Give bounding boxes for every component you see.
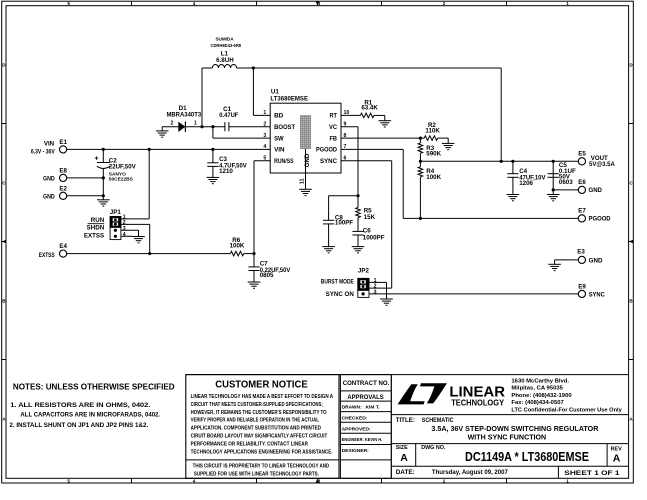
svg-text:LINEAR TECHNOLOGY HAS MADE A B: LINEAR TECHNOLOGY HAS MADE A BEST EFFORT…: [191, 394, 334, 400]
svg-text:11: 11: [299, 179, 305, 185]
svg-text:E4: E4: [59, 243, 67, 250]
svg-text:5: 5: [67, 479, 70, 484]
svg-text:6.8UH: 6.8UH: [216, 57, 234, 64]
svg-text:GND: GND: [304, 153, 311, 167]
svg-text:PGOOD: PGOOD: [316, 147, 337, 154]
svg-text:DESIGNER:: DESIGNER:: [342, 448, 370, 454]
svg-text:TECHNOLOGY: TECHNOLOGY: [451, 399, 504, 408]
svg-text:THIS CIRCUIT IS PROPRIETARY TO: THIS CIRCUIT IS PROPRIETARY TO LINEAR TE…: [193, 464, 330, 470]
svg-text:1630 McCarthy Blvd.: 1630 McCarthy Blvd.: [511, 379, 569, 385]
svg-text:JP2: JP2: [358, 267, 370, 274]
svg-text:APPROVALS: APPROVALS: [347, 394, 383, 401]
svg-text:E6: E6: [578, 179, 586, 186]
svg-text:BD: BD: [274, 113, 283, 120]
svg-text:E3: E3: [577, 249, 585, 256]
svg-text:GND: GND: [589, 187, 603, 194]
svg-text:FB: FB: [330, 135, 338, 142]
svg-text:DRAWN:: DRAWN:: [342, 405, 362, 411]
svg-text:4: 4: [193, 479, 196, 484]
svg-text:SHEET 1 OF 1: SHEET 1 OF 1: [564, 470, 620, 477]
svg-text:1: 1: [194, 120, 197, 126]
svg-text:TITLE:: TITLE:: [396, 417, 415, 424]
svg-text:4: 4: [193, 1, 196, 6]
svg-text:1: 1: [566, 479, 569, 484]
svg-text:RT: RT: [330, 113, 338, 120]
svg-text:DC1149A * LT3680EMSE: DC1149A * LT3680EMSE: [465, 449, 589, 464]
svg-text:RUN/SS: RUN/SS: [274, 158, 294, 165]
svg-text:Thursday, August 09, 2007: Thursday, August 09, 2007: [432, 469, 508, 476]
svg-text:1. ALL RESISTORS ARE IN OHMS,: 1. ALL RESISTORS ARE IN OHMS, 0402.: [10, 402, 150, 409]
svg-text:RUN: RUN: [91, 217, 105, 224]
svg-text:4: 4: [123, 232, 126, 238]
svg-text:Milpitas, CA 95035: Milpitas, CA 95035: [511, 386, 563, 392]
svg-text:CONTRACT NO.: CONTRACT NO.: [343, 380, 390, 387]
svg-text:2. INSTALL SHUNT ON JP1 AND J: 2. INSTALL SHUNT ON JP1 AND JP2 PINS 1&2…: [9, 422, 148, 429]
svg-text:E7: E7: [578, 207, 586, 214]
svg-text:VC: VC: [329, 124, 337, 131]
svg-text:110K: 110K: [425, 128, 440, 135]
svg-text:E2: E2: [59, 185, 67, 192]
svg-text:E1: E1: [59, 139, 67, 146]
svg-text:5V@3.5A: 5V@3.5A: [589, 161, 615, 168]
svg-text:50CE22BS: 50CE22BS: [109, 176, 134, 182]
svg-text:0.47UF: 0.47UF: [219, 112, 238, 119]
svg-text:GND: GND: [43, 193, 55, 200]
svg-text:LTC Confidential-For Customer: LTC Confidential-For Customer Use Only: [511, 408, 622, 414]
svg-text:E8: E8: [59, 167, 67, 174]
svg-text:1210: 1210: [219, 168, 233, 175]
svg-text:22UF,50V: 22UF,50V: [109, 164, 137, 171]
svg-text:CDRH8D43-6R8: CDRH8D43-6R8: [211, 43, 242, 48]
svg-text:+: +: [94, 155, 98, 162]
svg-text:CUSTOMER NOTICE: CUSTOMER NOTICE: [215, 379, 308, 390]
svg-text:SIZE: SIZE: [396, 445, 408, 451]
svg-text:0603: 0603: [559, 179, 573, 186]
svg-text:SANYO: SANYO: [109, 171, 126, 177]
svg-text:SW: SW: [274, 135, 284, 142]
svg-text:1000PF: 1000PF: [363, 234, 385, 241]
svg-text:DWG NO.: DWG NO.: [421, 445, 446, 451]
svg-text:JP1: JP1: [110, 209, 122, 216]
svg-text:VIN: VIN: [274, 147, 285, 154]
svg-text:SYNC: SYNC: [589, 291, 606, 298]
svg-text:U1: U1: [271, 88, 279, 95]
svg-text:GND: GND: [589, 258, 603, 265]
svg-text:GND: GND: [43, 175, 55, 182]
svg-text:63.4K: 63.4K: [361, 105, 378, 112]
svg-text:3: 3: [374, 290, 377, 296]
svg-text:SHDN: SHDN: [87, 225, 105, 232]
svg-text:6.3V - 36V: 6.3V - 36V: [31, 150, 55, 156]
svg-text:2: 2: [443, 1, 446, 6]
svg-text:LT3680EMSE: LT3680EMSE: [270, 95, 308, 102]
svg-text:A: A: [400, 452, 408, 464]
svg-text:PGOOD: PGOOD: [589, 215, 612, 222]
svg-text:590K: 590K: [426, 151, 441, 158]
svg-text:CIRCUIT THAT MEETS CUSTOMER-SU: CIRCUIT THAT MEETS CUSTOMER-SUPPLIED SPE…: [191, 402, 323, 408]
svg-text:ENGINEER: KEVIN H.: ENGINEER: KEVIN H.: [342, 437, 383, 443]
svg-text:TECHNOLOGY APPLICATIONS ENGINE: TECHNOLOGY APPLICATIONS ENGINEERING FOR …: [191, 449, 333, 455]
svg-text:3: 3: [123, 226, 126, 232]
svg-text:BOOST: BOOST: [274, 124, 295, 131]
svg-text:MBRA340T3: MBRA340T3: [166, 111, 201, 118]
svg-text:SUPPLIED FOR USE WITH LINEAR T: SUPPLIED FOR USE WITH LINEAR TECHNOLOGY …: [194, 471, 319, 477]
svg-text:EXTSS: EXTSS: [84, 232, 104, 239]
svg-text:CHECKED:: CHECKED:: [342, 415, 368, 421]
svg-text:100K: 100K: [426, 174, 441, 181]
svg-text:2: 2: [443, 479, 446, 484]
svg-text:KIM T.: KIM T.: [366, 405, 381, 411]
svg-text:WITH SYNC FUNCTION: WITH SYNC FUNCTION: [468, 432, 547, 441]
svg-text:EXTSS: EXTSS: [39, 252, 55, 259]
svg-text:APPLICATION. COMPONENT SUBSTI: APPLICATION. COMPONENT SUBSTITUTION AND …: [191, 426, 321, 432]
svg-text:SYNC ON: SYNC ON: [326, 291, 355, 298]
svg-text:A: A: [613, 452, 621, 464]
svg-text:SUMIDA: SUMIDA: [215, 37, 234, 42]
svg-text:Phone: (408)432-1900: Phone: (408)432-1900: [511, 393, 572, 399]
svg-text:5: 5: [67, 1, 70, 6]
svg-text:100K: 100K: [230, 243, 245, 250]
svg-text:E9: E9: [578, 283, 586, 290]
svg-text:0805: 0805: [260, 272, 274, 279]
svg-text:ALL CAPACITORS ARE IN MICROFAR: ALL CAPACITORS ARE IN MICROFARADS, 0402.: [20, 412, 160, 419]
svg-text:PERFORMANCE OR RELIABILITY. C: PERFORMANCE OR RELIABILITY. CONTACT LINE…: [191, 441, 309, 447]
svg-text:HOWEVER, IT REMAINS THE CUSTOM: HOWEVER, IT REMAINS THE CUSTOMER'S RESPO…: [191, 410, 327, 416]
svg-text:100PF: 100PF: [335, 219, 353, 226]
svg-text:BURST MODE: BURST MODE: [321, 278, 354, 285]
svg-text:Fax: (408)434-0507: Fax: (408)434-0507: [511, 400, 564, 406]
svg-text:1206: 1206: [519, 180, 533, 187]
svg-text:E5: E5: [578, 150, 586, 157]
svg-text:1: 1: [566, 1, 569, 6]
svg-text:15K: 15K: [364, 214, 376, 221]
svg-text:VERIFY PROPER AND RELIABLE OPE: VERIFY PROPER AND RELIABLE OPERATION IN …: [191, 418, 320, 424]
svg-text:DATE:: DATE:: [396, 469, 415, 476]
svg-text:CIRUIT BOARD LAYOUT MAY SIGNIF: CIRUIT BOARD LAYOUT MAY SIGNIFICANTLY AF…: [191, 434, 328, 440]
svg-text:NOTES: UNLESS OTHERWISE SPECI: NOTES: UNLESS OTHERWISE SPECIFIED: [13, 382, 175, 391]
svg-text:SYNC: SYNC: [320, 158, 337, 165]
svg-text:VIN: VIN: [44, 140, 55, 147]
svg-text:APPROVED:: APPROVED:: [342, 427, 371, 433]
svg-text:2: 2: [171, 120, 174, 126]
